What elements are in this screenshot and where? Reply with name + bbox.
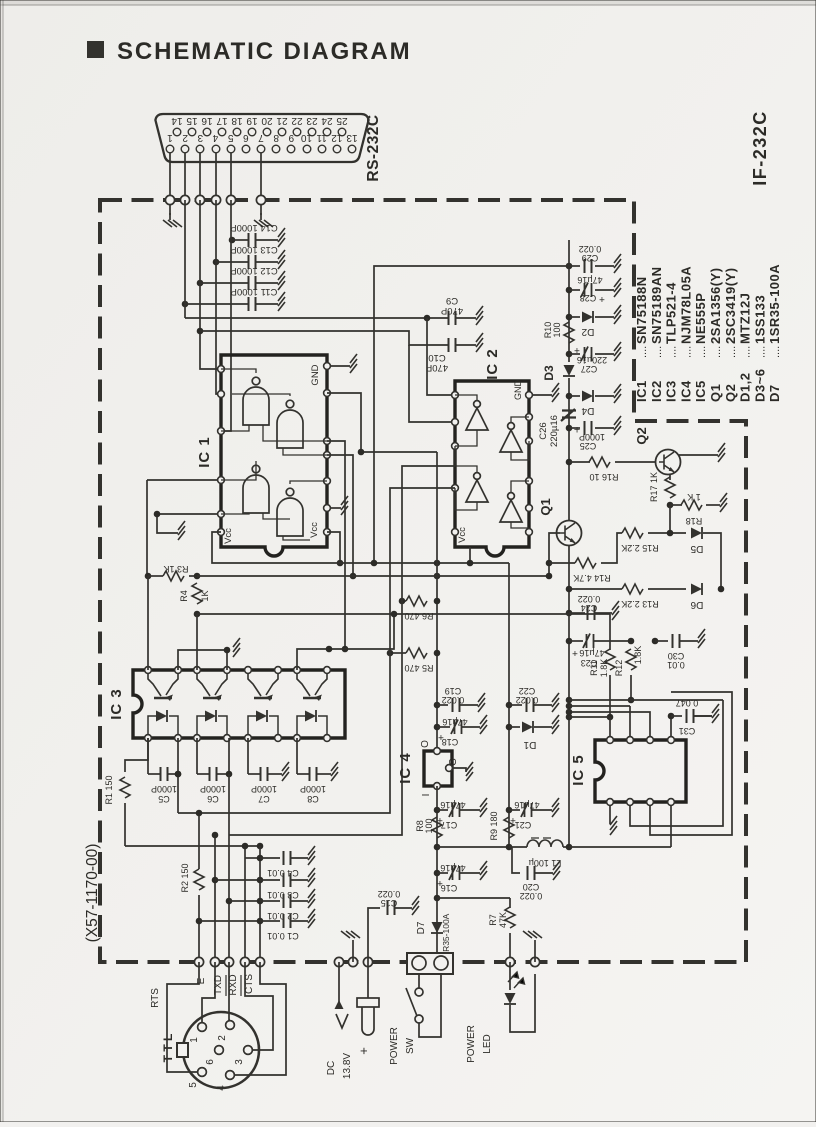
svg-text:G: G <box>448 758 459 766</box>
connector pin 7 <box>257 145 265 153</box>
svg-text:IC 1: IC 1 <box>196 436 213 468</box>
ground IC1 pin <box>341 496 348 515</box>
capacitor C25 1000P <box>585 421 592 435</box>
wire pin7 to ground <box>260 205 262 215</box>
connector pin 4 <box>212 145 220 153</box>
junction <box>358 449 365 456</box>
ground C31 <box>712 704 719 723</box>
pin IC3 bottom 248 <box>245 735 252 742</box>
wire to IC1 pin480 <box>147 479 221 481</box>
capacitor C6 1000P <box>210 767 217 781</box>
svg-text:+: + <box>438 731 444 742</box>
svg-text:Vcc: Vcc <box>457 527 468 543</box>
wire bus 509 <box>508 563 510 847</box>
wire bus 437 <box>436 452 438 751</box>
ground C10 <box>476 333 483 352</box>
svg-text:1: 1 <box>167 132 173 143</box>
wire inv D in <box>511 522 529 528</box>
resistor R5 470 <box>406 648 427 658</box>
wire C23 <box>569 640 583 642</box>
svg-text:C14 1000P: C14 1000P <box>230 222 278 233</box>
wire R12 down <box>630 675 632 700</box>
junction <box>566 709 573 716</box>
svg-text:IC 3: IC 3 <box>108 688 125 720</box>
transistor IC3 opto 1 <box>148 673 178 701</box>
svg-text:R2 150: R2 150 <box>180 863 190 892</box>
svg-text:....: .... <box>637 346 649 358</box>
wire <box>260 879 280 881</box>
svg-text:0.022: 0.022 <box>579 244 602 254</box>
ground C4 <box>308 846 315 865</box>
wire <box>260 920 280 922</box>
svg-text:0.01: 0.01 <box>667 660 685 670</box>
svg-text:C20: C20 <box>523 882 540 892</box>
wire Q2 emitter <box>669 474 671 480</box>
pin IC3 bottom 278 <box>275 735 282 742</box>
inverter IC2-A <box>466 401 488 430</box>
wire C5 right <box>177 738 179 774</box>
diode D6 <box>691 584 702 595</box>
junction R4 bottom <box>194 611 201 618</box>
junction gnd IC3 <box>224 647 231 654</box>
ground C18 <box>480 715 487 734</box>
ground C19 <box>478 693 485 712</box>
pin IC5 top 610 <box>607 737 614 744</box>
wire C24 <box>569 612 585 614</box>
svg-text:D1: D1 <box>523 739 536 750</box>
connector pin 13 <box>348 145 356 153</box>
connector pin 5 <box>227 145 235 153</box>
IC IC3 body <box>133 670 345 738</box>
pin IC2 right 508 <box>526 505 533 512</box>
inverter IC2-B <box>500 423 522 452</box>
wire SW return <box>419 974 441 1037</box>
svg-text:18: 18 <box>231 115 243 126</box>
svg-text:IC3: IC3 <box>664 380 679 402</box>
svg-text:IC 5: IC 5 <box>570 754 587 786</box>
wire R5 to IC2 <box>390 488 455 653</box>
svg-text:220µ16: 220µ16 <box>549 415 560 447</box>
svg-text:1SR35-100A: 1SR35-100A <box>767 264 782 344</box>
wire IC1 Vcc right <box>327 532 340 563</box>
capacitor C5 1000P <box>161 767 168 781</box>
capacitor C28 47µ16 <box>581 283 592 298</box>
junction L1 row <box>434 844 441 851</box>
wire <box>535 872 553 874</box>
resistor R14 4.7K <box>575 558 596 568</box>
svg-text:DC: DC <box>326 1061 337 1075</box>
wire loop R5 <box>178 653 390 813</box>
wire IC2 gnd <box>532 394 552 396</box>
svg-text:0.022: 0.022 <box>516 695 539 705</box>
svg-text:I: I <box>421 794 432 797</box>
wire <box>509 898 511 908</box>
pin IC5 bottom 671 <box>668 799 675 806</box>
wire RS-232 pin <box>184 153 186 200</box>
wire R7 row <box>437 897 510 899</box>
resistor R12 1.8K <box>626 649 636 670</box>
pin IC2 right 441 <box>526 438 533 445</box>
svg-text:IC4: IC4 <box>678 380 693 402</box>
svg-text:C9: C9 <box>446 295 458 306</box>
svg-text:2SC3419(Y): 2SC3419(Y) <box>723 267 738 344</box>
wire gate C in2 <box>263 513 290 519</box>
capacitor C18 47u16 <box>451 720 462 735</box>
wire IC5 to L1 <box>670 805 672 847</box>
svg-text:C6: C6 <box>207 794 219 804</box>
wire R1 down <box>124 803 126 846</box>
pin IC5 top 630 <box>627 737 634 744</box>
wire IC1 pin to bus <box>327 393 437 452</box>
junction <box>391 611 398 618</box>
svg-text:....: .... <box>726 346 738 358</box>
ground C17 <box>480 798 487 817</box>
wire R16 <box>569 461 590 463</box>
transistor IC3 opto 4 <box>297 673 327 701</box>
pin IC2 left 446 <box>452 443 459 450</box>
wire C20 <box>512 847 520 873</box>
wire C25 <box>569 427 580 429</box>
svg-text:1.8K: 1.8K <box>599 659 609 678</box>
junction <box>196 810 203 817</box>
capacitor C12 1000P <box>249 276 256 290</box>
pin IC3 top 197 <box>194 667 201 674</box>
connector power (2 pin) <box>407 953 453 974</box>
wire <box>291 900 308 902</box>
node D1 <box>506 724 513 731</box>
pin IC5 top 671 <box>668 737 675 744</box>
node C27 <box>566 351 573 358</box>
ground C15 <box>412 896 419 915</box>
wire C6 left <box>196 738 198 774</box>
svg-text:R4: R4 <box>179 590 189 602</box>
wire loop P2 <box>650 692 732 835</box>
wire IC4 G <box>452 768 466 772</box>
svg-text:10: 10 <box>301 132 313 143</box>
wire <box>148 773 160 775</box>
capacitor C21 47u16 <box>521 803 532 818</box>
ground IC4 <box>466 762 473 781</box>
connector TTL notch <box>177 1043 188 1057</box>
svg-text:D2: D2 <box>581 326 594 337</box>
LED arrows <box>508 972 525 988</box>
pin IC3 top 178 <box>175 667 182 674</box>
connector TTL pin 2 <box>226 1021 235 1030</box>
wire <box>595 265 614 267</box>
svg-text:3: 3 <box>234 1059 245 1065</box>
svg-text:5: 5 <box>227 132 233 143</box>
wire LED <box>509 962 511 990</box>
wire <box>595 395 614 397</box>
wire <box>534 704 552 706</box>
svg-text:22: 22 <box>291 115 303 126</box>
svg-text:R1 150: R1 150 <box>104 775 114 804</box>
wire <box>317 773 331 775</box>
wire <box>706 504 720 506</box>
wire TTL column TXD <box>214 835 216 962</box>
ground C29 <box>614 254 621 273</box>
node C25 <box>566 425 573 432</box>
wire to row835 <box>228 774 230 835</box>
wire loop P1 <box>630 700 723 826</box>
ground C25 <box>614 416 621 435</box>
resistor R1 150 <box>120 777 130 798</box>
pin IC4 bottom <box>434 783 441 790</box>
capacitor C3 0.01 <box>284 873 291 887</box>
wire RXD to pin2 <box>229 962 230 1020</box>
junction R12 <box>628 638 635 645</box>
DC plug symbol <box>357 998 379 1007</box>
diode D1 <box>522 722 533 733</box>
svg-text:NJM78L05A: NJM78L05A <box>678 266 693 344</box>
svg-text:....: .... <box>711 346 723 358</box>
wire DC minus <box>338 962 340 1008</box>
diode IC3 opto 3 <box>248 710 278 735</box>
pin IC1 right 393 <box>324 390 331 397</box>
junction <box>546 573 553 580</box>
ground IC2 <box>552 383 559 402</box>
terminal TTL <box>240 957 249 966</box>
wire bus to C9 <box>185 317 448 319</box>
svg-text:17: 17 <box>216 115 228 126</box>
svg-text:RTS: RTS <box>150 988 161 1008</box>
svg-text:C13 1000P: C13 1000P <box>230 244 278 255</box>
wire gate D in <box>283 536 310 540</box>
resistor R9 180 <box>504 817 514 838</box>
wire <box>268 773 282 775</box>
wire R11 top <box>609 614 611 650</box>
node C23 <box>566 638 573 645</box>
junction <box>257 843 264 850</box>
svg-text:GND: GND <box>310 364 321 385</box>
connector pin 9 <box>287 145 295 153</box>
pin IC3 top 297 <box>294 667 301 674</box>
wire D2 <box>569 316 580 318</box>
junction <box>197 328 204 335</box>
svg-text:Q1: Q1 <box>708 384 723 402</box>
pin IC1 right 366 <box>324 363 331 370</box>
terminal LED- <box>530 957 539 966</box>
wire <box>189 575 197 577</box>
node R16 <box>566 459 573 466</box>
svg-text:C15: C15 <box>381 898 398 908</box>
wire to C13 <box>216 261 248 263</box>
junction <box>326 646 333 653</box>
pin IC5 top 650 <box>647 737 654 744</box>
svg-text:R14 4.7K: R14 4.7K <box>573 573 611 583</box>
svg-text:1000P: 1000P <box>251 784 277 794</box>
wire IC3 pin1 up <box>147 576 149 670</box>
pin IC2 left 488 <box>452 485 459 492</box>
svg-text:C21: C21 <box>515 820 532 830</box>
junction <box>226 771 233 778</box>
svg-text:....: .... <box>770 346 782 358</box>
wire C3 row <box>215 879 260 881</box>
wire Vcc bus <box>212 532 509 563</box>
svg-text:C12 1000P: C12 1000P <box>230 265 278 276</box>
wire E to pin5 <box>167 962 199 1072</box>
svg-text:14: 14 <box>171 115 183 126</box>
wire gate B out <box>232 394 290 396</box>
transistor Q1 <box>557 521 582 546</box>
svg-text:0.022: 0.022 <box>442 695 465 705</box>
svg-text:1: 1 <box>189 1037 200 1043</box>
capacitor C11 1000P <box>249 297 256 311</box>
svg-text:47µ16: 47µ16 <box>440 863 465 873</box>
wire R14 <box>549 562 575 564</box>
inductor L1 100u <box>527 840 563 847</box>
svg-text:2: 2 <box>182 132 188 143</box>
capacitor C15 0.022 <box>388 901 395 915</box>
svg-text:1 K: 1 K <box>687 492 701 502</box>
junction <box>566 714 573 721</box>
pin IC3 bottom 227 <box>224 735 231 742</box>
ground C2 <box>308 889 315 908</box>
wire <box>297 773 309 775</box>
junction <box>566 697 573 704</box>
svg-text:IC1: IC1 <box>634 380 649 402</box>
node C21 <box>506 807 513 814</box>
ground C16 <box>480 861 487 880</box>
resistor R4 1K <box>192 583 202 604</box>
svg-text:D5: D5 <box>690 543 703 554</box>
wire to pin4 <box>235 962 286 1075</box>
wire <box>260 213 262 220</box>
wire <box>595 612 612 614</box>
connector pin 3 <box>196 145 204 153</box>
capacitor C31 0.047 <box>687 709 694 723</box>
svg-text:IC5: IC5 <box>693 380 708 402</box>
svg-text:0.022: 0.022 <box>378 889 401 899</box>
svg-text:GND: GND <box>513 380 523 401</box>
node C14 tap <box>229 237 236 244</box>
wire <box>402 600 406 602</box>
connector pin 12 <box>333 145 341 153</box>
ground LED stub <box>523 931 542 938</box>
svg-text:....: .... <box>741 346 753 358</box>
junction <box>424 315 431 322</box>
node C19 <box>434 702 441 709</box>
wire C27 <box>569 353 580 355</box>
wire gate D out <box>290 481 327 484</box>
wire <box>256 261 278 263</box>
diode IC3 opto 4 <box>297 710 327 735</box>
svg-text:MTZ12J: MTZ12J <box>738 293 753 344</box>
wire <box>291 857 308 859</box>
node C31 <box>668 713 675 720</box>
ground col157 <box>178 521 185 540</box>
terminal DC <box>334 957 343 966</box>
svg-text:3: 3 <box>197 132 203 143</box>
wire R18 <box>670 504 682 506</box>
wire C2 row <box>229 900 260 902</box>
ground C9 <box>476 306 483 325</box>
wire bus H1 <box>374 266 569 563</box>
node C13 tap <box>213 259 220 266</box>
svg-text:C19: C19 <box>445 686 462 696</box>
wire <box>226 650 228 670</box>
ground D2 <box>614 305 621 324</box>
resistor R16 10 <box>589 457 610 467</box>
wire gnd stub LED <box>534 940 536 962</box>
capacitor C20 0.022 <box>528 866 535 880</box>
capacitor C22 0.022 <box>527 698 534 712</box>
svg-text:C1 0.01: C1 0.01 <box>267 931 299 941</box>
wire IC1 pin down <box>327 441 345 649</box>
capacitor C23 47u16 <box>583 634 594 649</box>
capacitor C1 0.01 <box>284 914 291 928</box>
pin IC1 right 532 <box>324 529 331 536</box>
svg-text:5: 5 <box>188 1082 199 1088</box>
connector TTL pin 3 <box>244 1046 253 1055</box>
svg-text:TLP521-4: TLP521-4 <box>664 282 679 344</box>
svg-text:19: 19 <box>246 115 258 126</box>
svg-text:16: 16 <box>201 115 213 126</box>
wire column 437 low <box>436 786 438 955</box>
wire gate B in <box>283 448 327 455</box>
svg-text:2SA1356(Y): 2SA1356(Y) <box>708 267 723 344</box>
wire row 576 <box>197 575 549 577</box>
ground IC3 top <box>233 638 240 657</box>
ground C3 <box>308 868 315 887</box>
wire C30 <box>655 640 668 642</box>
pin IC3 top 278 <box>275 667 282 674</box>
pin IC2 left 532 <box>452 529 459 536</box>
svg-text:R11: R11 <box>589 660 599 676</box>
svg-text:47µ16: 47µ16 <box>579 648 604 658</box>
wire C16 <box>437 872 448 874</box>
wire TTL column 5 <box>259 846 261 962</box>
wire col147 <box>146 480 148 576</box>
junction R3 left <box>145 573 152 580</box>
svg-text:47µ16: 47µ16 <box>440 800 465 810</box>
wire RS-232 pin <box>230 153 232 200</box>
junction <box>175 771 182 778</box>
dashed enclosure border <box>100 200 746 962</box>
svg-text:R6 470: R6 470 <box>404 611 433 621</box>
wire IC3 pin3 up <box>196 614 198 670</box>
connector pin 8 <box>272 145 280 153</box>
resistor R11 1.8K <box>605 649 615 670</box>
connector TTL pin 5 <box>198 1068 207 1077</box>
svg-text:R12: R12 <box>614 660 624 677</box>
svg-text:0.022: 0.022 <box>578 594 601 604</box>
node C2 <box>226 898 233 905</box>
IC IC2 body <box>455 381 529 556</box>
svg-text:+: + <box>574 344 580 355</box>
gate IC1-A NAND <box>243 377 269 425</box>
diode D4 <box>582 391 593 402</box>
wire pin3 line to IC1 <box>200 200 221 369</box>
junction <box>546 560 553 567</box>
svg-text:1000P: 1000P <box>300 784 326 794</box>
wire <box>595 316 614 318</box>
junction <box>566 703 573 710</box>
capacitor C17 47u16 <box>449 803 460 818</box>
connector pin 2 <box>181 145 189 153</box>
wire TTL column E lower <box>198 895 200 962</box>
svg-text:1K: 1K <box>200 590 210 601</box>
wire RS-232 pin <box>215 153 217 200</box>
connector pin 19 <box>248 128 256 136</box>
wire <box>256 282 278 284</box>
svg-text:D4: D4 <box>581 405 594 416</box>
wire C17 <box>437 809 448 811</box>
capacitor C29 0.022 <box>585 259 592 273</box>
wire R11 bottom <box>609 675 611 717</box>
wire inv A out <box>455 395 477 400</box>
svg-text:100: 100 <box>552 322 562 337</box>
